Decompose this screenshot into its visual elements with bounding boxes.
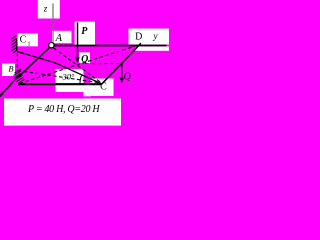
hatching lower-left wall corner xyxy=(0,83,13,97)
white patch under C box xyxy=(84,85,92,97)
C1 anchor edge xyxy=(16,39,18,52)
label box 30deg xyxy=(56,69,84,92)
svg-text:Q: Q xyxy=(124,71,132,82)
dashed leader from Q label to force point xyxy=(92,63,122,65)
svg-text:D: D xyxy=(135,31,142,42)
label box P xyxy=(75,22,95,46)
dashed diagonal A to C xyxy=(54,48,102,83)
label box A xyxy=(52,31,72,43)
bar B to C xyxy=(18,83,102,85)
force P arrow xyxy=(77,22,79,58)
label box C1 xyxy=(18,34,39,47)
svg-text:B: B xyxy=(8,64,13,74)
bar C to D xyxy=(101,43,141,84)
hatching C1 wall anchor xyxy=(12,36,17,54)
svg-text:C: C xyxy=(20,34,27,45)
ball joint circle at A xyxy=(49,43,54,48)
caption box xyxy=(4,99,121,126)
angle arc 30deg at C xyxy=(80,76,82,85)
svg-text:C: C xyxy=(100,82,107,93)
label box Q xyxy=(79,52,90,63)
svg-text:Q: Q xyxy=(81,54,88,65)
svg-text:30°: 30° xyxy=(62,71,76,81)
svg-text:z: z xyxy=(43,4,48,14)
dashed wall edge C1 to B xyxy=(16,54,18,71)
svg-text:P: P xyxy=(81,26,88,37)
cable C1 to C xyxy=(17,52,101,84)
dashed diagonal B to D xyxy=(20,45,141,84)
y-axis bar AD xyxy=(54,45,166,47)
svg-text:1: 1 xyxy=(28,42,31,48)
wall edge line at B going to lower-left corner xyxy=(0,74,21,96)
label box z xyxy=(38,0,60,19)
dashed hidden edge B to C xyxy=(18,71,102,84)
label box D and y corner xyxy=(129,29,170,45)
svg-text:y: y xyxy=(153,31,158,41)
force Q arrow xyxy=(121,63,123,78)
hatching B wall anchor xyxy=(14,69,25,83)
label box B xyxy=(2,64,15,77)
svg-text:P = 40 H, Q=20 H: P = 40 H, Q=20 H xyxy=(27,104,100,115)
bar A to B xyxy=(18,47,49,77)
z-axis xyxy=(52,4,54,43)
label box C xyxy=(91,79,114,97)
svg-text:A: A xyxy=(55,33,63,44)
